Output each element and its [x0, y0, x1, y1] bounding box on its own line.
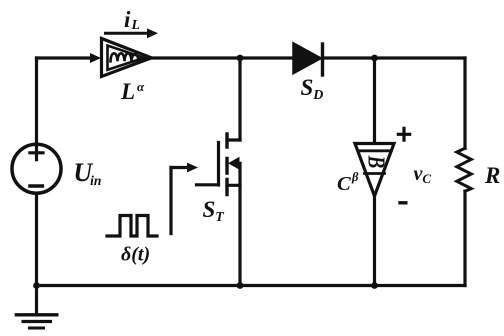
- inductor L1 coil: [111, 53, 139, 61]
- transistor ST source wire: [238, 163, 241, 285]
- transistor ST source lead: [227, 184, 240, 187]
- inductor L1 (fractional-order) outer triangle: [102, 39, 152, 77]
- node D (capacitor junction dot, bottom): [371, 282, 378, 289]
- diode SD cathode bar: [321, 44, 324, 75]
- transistor ST gate line: [217, 143, 220, 186]
- svg-text:ST: ST: [203, 197, 226, 225]
- svg-text:β: β: [351, 170, 359, 184]
- svg-text:δ(t): δ(t): [121, 244, 150, 266]
- current arrow i_L: [106, 32, 149, 35]
- node E (ground junction dot): [33, 282, 40, 289]
- pulse waveform delta(t): [107, 216, 157, 237]
- node A (drain junction dot, top): [237, 55, 244, 62]
- node C (source junction dot, bottom): [237, 282, 244, 289]
- wire right rail lower: [463, 191, 466, 285]
- svg-text:B: B: [363, 155, 390, 169]
- gate drive vertical wire: [169, 168, 172, 234]
- capacitor C triangle: [355, 144, 394, 197]
- wire top-left from left rail to inductor: [37, 56, 96, 59]
- svg-text:C: C: [337, 173, 351, 195]
- svg-text:L: L: [131, 18, 141, 33]
- svg-text:L: L: [120, 79, 135, 104]
- capacitor C inner top line: [359, 149, 391, 152]
- svg-text:R: R: [484, 163, 500, 188]
- inductor L1 inner triangle: [108, 46, 145, 70]
- gate drive horizontal arrow: [171, 166, 188, 169]
- transistor ST drain wire: [238, 58, 241, 140]
- capacitor C bottom wire: [373, 196, 376, 286]
- svg-text:Uin: Uin: [73, 158, 101, 188]
- svg-text:vC: vC: [414, 163, 432, 186]
- wire left rail upper: [35, 58, 38, 143]
- wire arrowhead into inductor: [90, 53, 101, 63]
- wire left rail lower: [35, 194, 38, 285]
- wire bottom rail: [37, 284, 466, 287]
- svg-text:i: i: [124, 7, 131, 32]
- ground: [35, 286, 38, 315]
- svg-text:α: α: [137, 79, 145, 94]
- capacitor C (fractional-order) top wire: [373, 58, 376, 143]
- resistor R zigzag: [457, 148, 472, 191]
- diode SD triangle: [294, 44, 321, 74]
- voltage source U_in: [12, 144, 61, 193]
- svg-text:SD: SD: [301, 75, 324, 103]
- minus sign (capacitor polarity): [400, 201, 406, 204]
- wire top rail inductor to diode: [153, 56, 293, 59]
- transistor ST gate lead: [197, 183, 219, 186]
- capacitor C rotated B glyph: [363, 155, 390, 169]
- wire right rail upper: [463, 58, 466, 148]
- wire top rail diode to right rail: [323, 56, 465, 59]
- transistor ST channel dashes: [225, 134, 228, 195]
- transistor ST drain lead: [227, 138, 240, 141]
- capacitor C middle bar: [365, 172, 385, 175]
- transistor ST body arrow: [234, 162, 240, 165]
- node B (capacitor junction dot, top): [371, 55, 378, 62]
- plus sign (capacitor polarity): [398, 128, 409, 140]
